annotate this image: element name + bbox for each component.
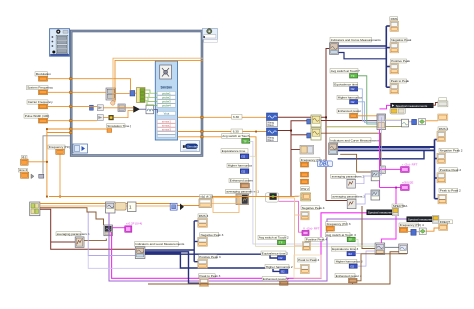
lavender wires into compare row <box>386 118 402 120</box>
loop input node bottom-left <box>73 144 88 153</box>
wire navy set2 second <box>338 150 424 159</box>
svg-text:I32: I32 <box>281 270 285 274</box>
svg-text:Equivalence time: Equivalence time <box>334 83 358 87</box>
node compare diamond <box>419 119 426 125</box>
orange wire rect inside loop top <box>113 58 203 100</box>
terminal set2b: Avg switch at Touch 2 <box>258 235 289 244</box>
prim >> glyph <box>31 174 44 179</box>
wire maroon wave1 to curvemeas1 <box>278 49 330 118</box>
svg-text:Negative Peak 4: Negative Peak 4 <box>302 206 325 210</box>
wire magenta vertical right <box>379 130 381 188</box>
wire brown row <box>40 208 104 225</box>
lavender vertical links set2 <box>248 142 375 245</box>
svg-text:Positive Peak 2: Positive Peak 2 <box>440 168 462 172</box>
svg-text:x-0.2F [0/-4]: x-0.2F [0/-4] <box>126 222 142 226</box>
node curve measurements 1 <box>330 43 339 55</box>
node white RFT small <box>380 166 386 174</box>
node row B <box>128 202 137 212</box>
svg-text:Negative Peak 2: Negative Peak 2 <box>440 149 463 153</box>
indicator Peak to Peak <box>390 79 410 94</box>
control Carrier Frequency <box>27 100 53 109</box>
svg-text:Pulse Width (100): Pulse Width (100) <box>25 114 50 118</box>
node N5 statistics <box>377 114 386 130</box>
inner node: peach circle <box>111 101 115 105</box>
node tone measurements <box>375 243 385 254</box>
svg-text:Peak to Peak 2: Peak to Peak 2 <box>440 189 461 193</box>
wire tan from DDT <box>276 197 294 199</box>
wire orange compare to indicator <box>426 120 438 122</box>
node compare diamond 2 <box>419 228 426 235</box>
SimSim simulation subsystem box <box>155 61 177 140</box>
navy branches set1 <box>386 25 390 27</box>
svg-text:Simulation Time [: Simulation Time [ <box>107 124 131 128</box>
mid column: node white top <box>300 145 314 154</box>
svg-text:Peak to Peak 3: Peak to Peak 3 <box>199 274 220 278</box>
wire orange carrier freq <box>48 105 98 107</box>
wire navy set2 main thick <box>338 146 435 148</box>
indicator Negative Peak 3 <box>198 233 224 247</box>
node peak detect A <box>371 171 380 181</box>
node averaging params 4 <box>75 237 84 247</box>
svg-text:V -(2x)- RFT: V -(2x)- RFT <box>303 226 320 230</box>
node spectral1 out <box>390 108 405 114</box>
tan rounded node <box>115 203 126 210</box>
Wave node 1 <box>267 113 278 127</box>
svg-text:Spectral measurements: Spectral measurements <box>396 104 428 108</box>
wire orange loop-exit C <box>178 137 257 197</box>
node merge signals <box>30 202 40 216</box>
svg-text:I32: I32 <box>241 170 245 174</box>
wire maroon wave2 down <box>278 131 292 197</box>
node averaging params 1 <box>236 194 249 205</box>
terminal magenta A <box>401 167 410 173</box>
wire brown long bottom <box>148 252 399 284</box>
indicator Peak to Peak 2 <box>438 188 461 204</box>
wire lavender long bottom <box>88 213 135 256</box>
wire brown ap4 out <box>84 239 106 241</box>
indicator FREQ right <box>439 220 453 230</box>
orange rect outline right of tan box <box>211 198 239 213</box>
svg-text:Enhanced power: Enhanced power <box>338 109 361 113</box>
svg-text:Enhanced power: Enhanced power <box>230 179 253 183</box>
node averaging params 3 <box>347 199 356 209</box>
svg-text:RMS: RMS <box>391 17 398 21</box>
svg-text:I32: I32 <box>350 264 354 268</box>
wire magenta to tone node <box>381 188 396 244</box>
terminal set3: Frequency (Hz) 3 <box>326 222 351 231</box>
terminal set1: Avg switch at Touch <box>330 69 360 79</box>
svg-text:sense3: sense3 <box>162 127 171 131</box>
terminal set3: Equivalence time 3 <box>331 247 358 256</box>
svg-text:Equivalence time: Equivalence time <box>222 149 246 153</box>
svg-text:Frequency (Hz) 3: Frequency (Hz) 3 <box>327 222 351 226</box>
svg-text:RMS 2: RMS 2 <box>439 127 449 131</box>
svg-text:Negative Peak 3: Negative Peak 3 <box>201 233 224 237</box>
node blue express icon <box>412 119 417 124</box>
svg-text:x[-]: x[-] <box>22 155 26 159</box>
wire maroon branch to sim node 2 <box>291 134 307 136</box>
terminal set2: Enhanced power <box>229 178 253 188</box>
svg-text:Avg switch at Touch: Avg switch at Touch <box>222 134 250 138</box>
terminal set1: Enhanced power <box>337 109 361 118</box>
indicator RMS 3 <box>198 214 209 227</box>
indicator Negative Peak 2 <box>437 148 463 163</box>
svg-text:Carrier Frequency: Carrier Frequency <box>28 100 53 104</box>
wire orange pulse width <box>48 120 98 122</box>
node simulate-signal 2 <box>307 128 321 140</box>
svg-text:Higher harmonics: Higher harmonics <box>228 164 253 168</box>
svg-text:TF: TF <box>243 139 247 143</box>
Wave node 2 <box>267 128 278 142</box>
indicator RMS <box>390 17 399 32</box>
wire orange from loop left down <box>47 129 107 197</box>
wire violet long bottom <box>109 213 407 282</box>
terminal set3: Avg switch at Touch 3 <box>325 233 356 242</box>
label SPECTRA small <box>392 204 403 208</box>
node black DDT <box>265 193 279 202</box>
svg-text:Avg switch at Touch 2: Avg switch at Touch 2 <box>259 236 289 240</box>
svg-text:Peak to Peak: Peak to Peak <box>391 79 410 83</box>
node row 2 (tone) <box>104 225 113 236</box>
orange square constant under label <box>107 129 112 133</box>
terminal magenta D <box>302 231 309 236</box>
wire maroon row down <box>40 209 135 249</box>
svg-text:Wave: Wave <box>267 138 274 142</box>
svg-text:I32: I32 <box>351 87 355 91</box>
indicator Positive Peak 4 <box>302 237 327 250</box>
svg-text:averaging parameters 1: averaging parameters 1 <box>226 190 259 194</box>
inner node: array constant <box>137 88 146 103</box>
inner node: build waveform <box>146 105 154 114</box>
inner node: sim params (gray) <box>106 88 116 100</box>
svg-text:Avg switch at Touch?: Avg switch at Touch? <box>331 69 360 73</box>
wire navy vertical set1 <box>385 26 387 87</box>
indicator Peak to Peak 4 <box>298 258 320 274</box>
svg-text:Modulation: Modulation <box>36 72 51 76</box>
node simulate-signal 1 <box>307 115 321 127</box>
wire magenta long bottom <box>112 213 367 278</box>
indicator Positive Peak 2 <box>437 168 461 183</box>
terminal set2b: Equivalence time 2 <box>261 251 288 260</box>
terminal set2b: Higher harmonics 2 <box>265 265 293 274</box>
label 6.30 B <box>231 129 243 134</box>
terminal set2b: Enhanced power 2 <box>262 277 289 286</box>
svg-text:Positive Peak 3: Positive Peak 3 <box>199 255 221 259</box>
svg-text:TF: TF <box>351 74 355 78</box>
indicator Peak to Peak 3 <box>199 274 221 287</box>
wire maroon long vertical down <box>326 117 348 200</box>
svg-text:x[y] dt 1[]: x[y] dt 1[] <box>200 195 213 199</box>
terminal set2: Avg switch at Touch <box>222 134 250 144</box>
wire maroon branch to ap4 <box>51 241 75 243</box>
svg-text:Equivalence time 2: Equivalence time 2 <box>262 251 288 255</box>
wire brown vertical right mid <box>362 206 375 249</box>
svg-text:Frequency (Hz) 4: Frequency (Hz) 4 <box>400 223 424 227</box>
lavender links mid <box>356 176 371 184</box>
indicator Negative Peak <box>390 38 412 53</box>
svg-text:Peak to Peak 4: Peak to Peak 4 <box>298 258 319 262</box>
svg-text:Enhanced power 2: Enhanced power 2 <box>263 277 289 281</box>
pale tan routing rect around PtP4 <box>294 255 321 278</box>
label Indicators and Curve Measurements 2 <box>330 138 372 143</box>
tunnel dots left edge <box>70 78 73 80</box>
svg-text:System Frequency: System Frequency <box>27 86 53 90</box>
control System Frequency <box>27 86 54 95</box>
inner node: blue coerce dot <box>130 91 135 97</box>
label averaging parameters 1 <box>226 190 251 194</box>
lavender wires set3 to tone <box>355 253 375 255</box>
array box mid <box>301 193 311 201</box>
terminal set1: Higher harmonics <box>337 95 362 104</box>
wire brown spectral1 to meas <box>433 103 438 106</box>
node row A <box>106 202 116 213</box>
svg-text:I32: I32 <box>351 100 355 104</box>
label Spectral measurements 2 (dark) <box>407 217 441 222</box>
indicator Positive Peak <box>390 59 410 74</box>
svg-text:Frequency (Hz): Frequency (Hz) <box>49 145 70 149</box>
navy wires from level meas <box>145 249 194 251</box>
svg-text:Positive Peak 4: Positive Peak 4 <box>306 238 328 242</box>
cluster constant (top-left) <box>50 29 70 57</box>
wire orange row double <box>40 203 170 205</box>
wire maroon stub to mid node <box>291 149 300 151</box>
terminal orange mid B <box>301 179 309 184</box>
terminal set2: Equivalence time <box>221 149 249 159</box>
node waveform graph right <box>399 244 408 253</box>
magenta wire to spectral1 <box>380 105 391 109</box>
wire magenta into C <box>112 227 124 229</box>
label averaging parameters 2 <box>331 174 356 178</box>
DBL blue glyph <box>318 161 333 168</box>
inner node: multiply triangle <box>134 106 140 112</box>
tan box node <box>199 199 211 207</box>
svg-text:Negative Peak: Negative Peak <box>391 38 412 42</box>
label Frequency (Hz) 4 <box>399 223 424 232</box>
svg-text:RMS 3: RMS 3 <box>199 214 209 218</box>
svg-text:r -(2x)- RFT: r -(2x)- RFT <box>402 162 418 166</box>
svg-text:averaging parameters 4: averaging parameters 4 <box>57 232 90 236</box>
terminal set2: Higher harmonics <box>227 163 252 173</box>
wire orange x[-] to junction <box>28 161 47 163</box>
control Frequency (Hz) <box>48 145 70 154</box>
label x[y] dt <box>200 195 213 199</box>
svg-text:Wave: Wave <box>267 123 274 127</box>
wire brown node1 output to N5 <box>321 120 377 122</box>
inner node: MA dual icon <box>118 104 125 111</box>
wire freq4 to icon <box>408 231 411 233</box>
wire orange modulation <box>48 79 131 91</box>
svg-text:Equivalence time 3: Equivalence time 3 <box>332 247 358 251</box>
label averaging parameters 4 <box>56 232 81 236</box>
svg-text:Indicators and Level Measureme: Indicators and Level Measurements <box>135 242 184 246</box>
wire brown node2 output down <box>321 133 381 166</box>
label 6.30 A <box>232 115 243 120</box>
green wires array to SimSim <box>146 90 158 93</box>
wire orange second from loop left <box>47 132 70 134</box>
wire tone to graph <box>385 246 399 248</box>
node level measurements <box>135 247 145 259</box>
label Spectral measurements 1 (dark) <box>391 103 434 108</box>
control sine 2 <box>18 168 28 178</box>
svg-text:Enhanced power 3: Enhanced power 3 <box>336 274 362 278</box>
label Simulation Time <box>107 124 126 128</box>
inner prim node A <box>97 105 103 111</box>
svg-text:Avg switch at Touch 3: Avg switch at Touch 3 <box>326 233 356 237</box>
indicator small 2 <box>438 114 448 120</box>
node blue express icon 2 <box>411 229 416 235</box>
svg-text:Higher harmonics 2: Higher harmonics 2 <box>266 265 293 269</box>
wires set1 to node N5 <box>358 76 377 124</box>
svg-text:SPECTRA: SPECTRA <box>393 204 409 208</box>
node white filter <box>402 119 409 127</box>
wire brown EP3 up to tone <box>357 254 407 281</box>
control Modulation <box>35 72 51 81</box>
wire navy set1 main <box>339 45 387 47</box>
label Spectral measurements (dark) bottom <box>367 210 399 215</box>
svg-text:DBL: DBL <box>319 162 329 168</box>
brown link node2 to whiteA <box>340 154 371 172</box>
control Pulse Width <box>24 114 49 123</box>
wire orange freq terminal down <box>59 154 61 196</box>
label Frequency (Hz) 2 <box>300 158 325 167</box>
terminal magenta C <box>125 226 132 232</box>
svg-text:Positive Peak: Positive Peak <box>391 59 410 63</box>
svg-text:Higher harmonics: Higher harmonics <box>338 96 363 100</box>
node blue square small <box>170 203 177 210</box>
svg-text:FREQ?: FREQ? <box>440 220 451 224</box>
terminal set1: Equivalence time <box>334 82 359 91</box>
junction dots <box>46 128 257 197</box>
svg-text:PW 2: PW 2 <box>301 187 309 191</box>
far-left blue mini node <box>90 105 94 110</box>
wire orange long mid <box>49 196 299 198</box>
node spectral bottom 1 <box>392 208 399 216</box>
control x[-] <box>21 155 29 165</box>
node triangle <box>180 204 184 211</box>
svg-text:TF: TF <box>279 241 283 245</box>
indicator meas small <box>438 98 448 107</box>
indicator RMS 2 <box>437 127 449 142</box>
loop top-right attached node <box>203 28 218 42</box>
label PW 2 <box>301 187 310 191</box>
wire magenta A <box>380 168 401 170</box>
wire orange loop-exit B <box>178 131 267 133</box>
svg-text:6.30: 6.30 <box>233 115 239 119</box>
wire orange loop-exit A <box>178 116 267 118</box>
svg-text:averaging parameters 2: averaging parameters 2 <box>332 174 365 178</box>
svg-text:Indicators and Curve Measureme: Indicators and Curve Measurements <box>331 38 381 42</box>
label Indicators and Level Measurements <box>135 242 179 247</box>
svg-text:Simulate: Simulate <box>187 145 199 149</box>
svg-text:TF: TF <box>349 238 353 242</box>
svg-text:I32: I32 <box>241 155 245 159</box>
svg-text:Indicators and Curve Measureme: Indicators and Curve Measurements <box>330 138 380 142</box>
svg-text:6.30: 6.30 <box>233 130 239 134</box>
svg-text:probe4: probe4 <box>162 104 171 108</box>
svg-text:+(90)/2E: +(90)/2E <box>402 181 414 185</box>
label averaging parameters 3 <box>332 195 357 199</box>
node spectral bottom 2 <box>432 216 439 224</box>
label Indicators and Curve Measurements 1 <box>330 37 372 42</box>
pale orange vertical to set4 indicators <box>295 198 301 268</box>
svg-text:SimSim: SimSim <box>161 85 173 89</box>
wires inside loop to nodes <box>103 107 133 109</box>
terminal set3: Enhanced power 3 <box>335 274 362 283</box>
svg-text:averaging parameters 3: averaging parameters 3 <box>332 195 365 199</box>
indicator RMS 4 (small top) <box>302 194 310 200</box>
indicator Negative Peak 4 <box>301 206 325 220</box>
wire magenta B <box>380 187 401 189</box>
svg-text:Vout: Vout <box>164 111 170 115</box>
simulation loop frame <box>71 31 202 156</box>
wire navy vertical set2 <box>434 140 436 199</box>
yellow dot constant <box>109 115 114 120</box>
svg-text:Higher harmonics 3: Higher harmonics 3 <box>336 260 363 264</box>
svg-text:I32: I32 <box>279 256 283 260</box>
terminal orange mid A <box>301 172 309 177</box>
wire maroon branch to sim node <box>291 121 307 131</box>
svg-text:I32: I32 <box>348 252 352 256</box>
wire orange compare2 to indicator <box>426 228 439 231</box>
wire rose from DDT <box>279 201 302 232</box>
svg-text:sine 2: sine 2 <box>19 168 28 172</box>
terminal set3: Higher harmonics 3 <box>335 259 363 268</box>
node curve measurements 2 <box>329 143 338 155</box>
node averaging params 2 <box>347 179 356 188</box>
wire gray from loop left <box>43 136 70 174</box>
node peak detect B <box>371 190 380 200</box>
indicator Positive Peak 3 <box>198 255 221 268</box>
wire orange system freq <box>48 91 107 93</box>
inner prim node B <box>97 115 103 121</box>
terminal magenta B <box>401 185 410 191</box>
sim timing node (bottom of loop) <box>180 141 199 152</box>
